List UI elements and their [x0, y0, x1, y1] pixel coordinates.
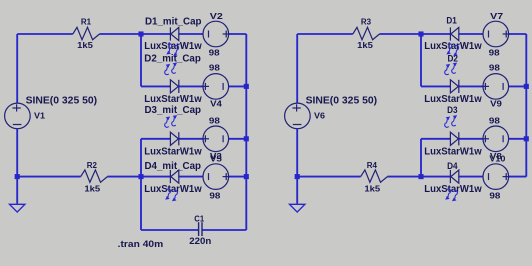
svg-text:.tran 40m: .tran 40m	[118, 239, 164, 249]
LED arrows D4	[165, 189, 177, 201]
voltage source V3	[202, 126, 229, 152]
voltage source V10	[483, 164, 510, 190]
voltage source V4	[202, 74, 229, 100]
svg-text:98: 98	[209, 63, 220, 73]
wire row3 c	[509, 138, 527, 140]
wire row2	[141, 85, 170, 87]
wire to ground	[296, 177, 298, 204]
resistor R2	[81, 160, 108, 193]
junction node A	[418, 31, 423, 36]
junction node A	[138, 31, 143, 36]
wire row4 e	[509, 176, 527, 178]
svg-text:R4: R4	[367, 160, 377, 170]
svg-text:D1_mit_Cap: D1_mit_Cap	[145, 16, 202, 27]
wire cap right	[202, 229, 246, 231]
junction source/ground	[15, 174, 20, 179]
wire bus B	[420, 139, 422, 177]
wire right bus	[525, 34, 527, 177]
LED D2	[170, 80, 178, 93]
svg-text:LuxStarW1w: LuxStarW1w	[424, 41, 482, 52]
svg-text:V2: V2	[210, 11, 223, 21]
wire row2	[421, 85, 450, 87]
LED arrows D4	[445, 189, 457, 201]
wire row4 a	[17, 176, 80, 178]
wire row1 c	[509, 33, 527, 35]
wire row3 b	[179, 138, 203, 140]
wire row4 a	[297, 176, 361, 178]
junction bus row4	[244, 174, 249, 179]
wire row3 b	[459, 138, 483, 140]
svg-text:LuxStarW1w: LuxStarW1w	[144, 41, 202, 52]
svg-text:98: 98	[209, 190, 220, 200]
wire row4 b	[387, 176, 421, 178]
svg-text:C1: C1	[194, 214, 204, 224]
wire row4 e	[229, 176, 247, 178]
voltage source V1	[5, 103, 31, 129]
wire source bottom	[296, 129, 298, 177]
wire source top	[16, 34, 18, 103]
wire row1 c	[229, 33, 247, 35]
wire bus A	[420, 34, 422, 86]
svg-text:D3_mit_Cap: D3_mit_Cap	[145, 105, 202, 116]
wire row3	[141, 138, 170, 140]
svg-text:V4: V4	[210, 99, 222, 109]
svg-text:220n: 220n	[189, 236, 211, 246]
svg-text:LuxStarW1w: LuxStarW1w	[144, 94, 202, 105]
wire bus B	[140, 139, 142, 230]
voltage source V9	[482, 74, 509, 100]
LED D4	[170, 170, 178, 183]
junction bus row3	[524, 136, 529, 141]
svg-text:V7: V7	[490, 11, 503, 21]
svg-text:V9: V9	[490, 99, 502, 109]
svg-text:98: 98	[489, 190, 500, 200]
svg-text:LuxStarW1w: LuxStarW1w	[424, 184, 482, 195]
junction bus row2	[244, 84, 249, 89]
svg-text:1k5: 1k5	[357, 40, 373, 50]
svg-text:R1: R1	[81, 17, 91, 27]
wire to ground	[16, 177, 18, 204]
LED D1	[450, 27, 458, 40]
svg-text:D3: D3	[447, 104, 457, 115]
LED arrows D1	[166, 44, 178, 56]
voltage source V7	[483, 21, 510, 47]
resistor R3	[353, 17, 380, 50]
ground	[10, 204, 25, 212]
LED D3	[450, 132, 458, 145]
svg-text:LuxStarW1w: LuxStarW1w	[424, 146, 482, 157]
svg-text:D4_mit_Cap: D4_mit_Cap	[145, 161, 202, 172]
svg-text:R3: R3	[361, 17, 371, 27]
junction bus row2	[524, 84, 529, 89]
LED arrows D1	[446, 44, 458, 56]
wire bus A	[140, 34, 142, 86]
svg-text:1k5: 1k5	[84, 183, 100, 193]
svg-text:V10: V10	[489, 153, 505, 163]
LED arrows D2	[445, 63, 457, 75]
svg-text:LuxStarW1w: LuxStarW1w	[424, 94, 482, 105]
wire source bottom	[16, 129, 18, 177]
svg-text:R2: R2	[87, 160, 97, 170]
svg-text:V1: V1	[34, 110, 45, 120]
LED arrows D3	[165, 115, 177, 127]
svg-text:V5: V5	[210, 153, 222, 163]
wire row4 d	[179, 176, 203, 178]
svg-text:98: 98	[489, 115, 500, 125]
wire row4 d	[459, 176, 483, 178]
svg-text:D1: D1	[446, 14, 456, 25]
svg-text:1k5: 1k5	[364, 183, 380, 193]
svg-text:98: 98	[209, 115, 220, 125]
wire top	[297, 33, 353, 35]
wire row1 b	[179, 33, 203, 35]
svg-text:98: 98	[489, 47, 500, 57]
voltage source V2	[203, 21, 230, 47]
wire row2 c	[509, 85, 527, 87]
wire row2 c	[229, 85, 247, 87]
junction node B	[418, 174, 423, 179]
svg-text:LuxStarW1w: LuxStarW1w	[144, 184, 202, 195]
ground	[290, 204, 305, 212]
wire row3 c	[229, 138, 247, 140]
wire right bus	[245, 34, 247, 230]
capacitor C1	[189, 214, 211, 246]
LED arrows D2	[165, 63, 177, 75]
junction node B	[138, 174, 143, 179]
wire row1 b	[459, 33, 483, 35]
resistor R4	[361, 160, 388, 193]
wire R to node A	[100, 33, 171, 35]
wire row2 b	[179, 85, 203, 87]
wire source top	[296, 34, 298, 103]
svg-text:98: 98	[489, 63, 500, 73]
voltage source V8	[482, 126, 509, 152]
junction bus row3	[244, 136, 249, 141]
LED D3	[170, 132, 178, 145]
LED D1_mit_Cap	[170, 27, 178, 40]
resistor R1	[73, 17, 100, 50]
wire top	[17, 33, 73, 35]
LED D2	[450, 80, 458, 93]
svg-text:SINE(0 325 50): SINE(0 325 50)	[306, 95, 378, 106]
voltage source V6	[285, 103, 311, 129]
svg-text:SINE(0 325 50): SINE(0 325 50)	[26, 95, 98, 106]
svg-text:LuxStarW1w: LuxStarW1w	[144, 147, 202, 158]
wire row2 b	[459, 85, 483, 87]
wire row4 c	[421, 176, 450, 178]
LED arrows D3	[445, 115, 457, 127]
wire cap left	[141, 229, 198, 231]
svg-text:V6: V6	[314, 110, 325, 120]
voltage source V5	[203, 164, 230, 190]
svg-text:D2_mit_Cap: D2_mit_Cap	[144, 54, 201, 65]
wire row4 c	[141, 176, 170, 178]
wire R to node A	[380, 33, 451, 35]
junction source/ground	[295, 174, 300, 179]
LED D4	[450, 170, 458, 183]
svg-text:D4: D4	[447, 160, 458, 171]
svg-text:1k5: 1k5	[77, 40, 93, 50]
wire row4 b	[107, 176, 141, 178]
svg-text:98: 98	[209, 47, 220, 57]
wire row3	[421, 138, 450, 140]
